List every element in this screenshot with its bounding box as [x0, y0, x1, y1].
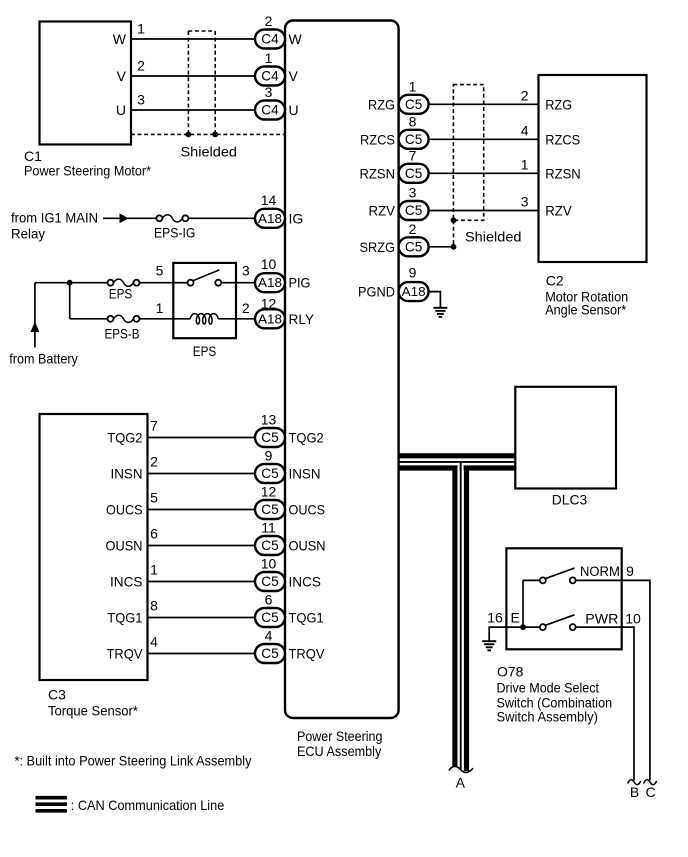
connector C5 pin 3 (RZV) [399, 201, 429, 220]
arrow from Battery [31, 322, 40, 333]
svg-text:3: 3 [409, 185, 417, 201]
svg-text:A18: A18 [258, 211, 282, 226]
svg-text:12: 12 [261, 295, 277, 311]
wire RZV to C2 [429, 210, 539, 212]
connector A18 pin 14 (IG) [255, 209, 285, 228]
svg-text:: CAN Communication Line: : CAN Communication Line [71, 797, 225, 813]
svg-text:W: W [289, 31, 303, 47]
shield dashed box right line [214, 31, 216, 134]
CAN legend bars [36, 796, 67, 800]
CAN bus horizontal line (thin middle) [399, 461, 516, 463]
svg-text:C1: C1 [24, 148, 42, 164]
wire C1 U to connector C4 [131, 109, 255, 111]
svg-text:RZCS: RZCS [545, 131, 580, 147]
connector A18 pin 12 (RLY) [255, 309, 285, 328]
wire NORM to pin 9 [576, 579, 622, 581]
wire PGND to ground [429, 292, 441, 308]
fuse EPS [108, 280, 114, 286]
svg-text:5: 5 [150, 490, 158, 506]
connector C5 pin 10 (INCS) [255, 572, 285, 591]
svg-text:8: 8 [409, 113, 417, 129]
component box C1 Power Steering Motor [40, 22, 132, 145]
wire C3 TRQV to ECU [148, 653, 256, 655]
svg-text:11: 11 [261, 520, 276, 536]
svg-text:8: 8 [150, 598, 158, 614]
shield dashed box (C2) outline [453, 85, 483, 221]
svg-text:TQG1: TQG1 [107, 610, 142, 626]
wire RZCS to C2 [429, 138, 539, 140]
connector C5 pin 8 (RZCS) [399, 130, 429, 149]
svg-text:C4: C4 [261, 32, 279, 47]
ECU box outline (Power Steering ECU Assembly) [285, 21, 399, 719]
junction dot shield right [212, 132, 218, 138]
NORM switch contact right [570, 577, 576, 583]
svg-text:IG: IG [289, 210, 304, 226]
wire PWR to pin 10 [576, 626, 622, 628]
wire to NORM contact [523, 579, 540, 581]
connector C5 pin 2 (SRZG) [399, 237, 429, 256]
svg-text:C5: C5 [261, 466, 278, 481]
svg-text:ECU Assembly: ECU Assembly [297, 743, 381, 759]
svg-text:1: 1 [521, 156, 529, 172]
wire C3 INSN to ECU [148, 473, 256, 475]
NORM switch contact left [540, 577, 546, 583]
connector C4 pin 2 (W) [255, 30, 285, 49]
ground symbol O78 [482, 640, 496, 642]
svg-text:V: V [117, 68, 127, 84]
svg-text:16: 16 [487, 610, 503, 626]
svg-text:1: 1 [150, 562, 158, 578]
svg-text:10: 10 [261, 256, 277, 272]
svg-text:C3: C3 [48, 686, 66, 702]
svg-text:A18: A18 [258, 311, 282, 326]
svg-text:W: W [113, 31, 127, 47]
wire C3 INCS to ECU [148, 581, 256, 583]
svg-text:TQG2: TQG2 [289, 430, 324, 446]
junction dot shield box corner [451, 217, 457, 223]
wire branch down to EPS-B [69, 283, 71, 319]
svg-text:3: 3 [521, 194, 529, 210]
connector A18 pin 10 (PIG) [255, 273, 285, 292]
svg-text:Angle Sensor*: Angle Sensor* [545, 302, 626, 318]
connector C5 pin 6 (TQG1) [255, 608, 285, 627]
svg-text:U: U [116, 102, 126, 118]
wire C3 TQG1 to ECU [148, 617, 256, 619]
connector C5 pin 7 (RZSN) [399, 164, 429, 183]
svg-text:1: 1 [409, 78, 417, 94]
svg-text:7: 7 [409, 147, 417, 163]
svg-text:6: 6 [265, 592, 273, 608]
wire RZSN to C2 [429, 172, 539, 174]
svg-text:EPS: EPS [109, 286, 133, 302]
svg-text:10: 10 [625, 610, 641, 626]
connector C5 pin 4 (TRQV) [255, 644, 285, 663]
wire C1 V to connector C4 [131, 75, 255, 77]
wire branch to EPS-B fuse [70, 318, 108, 320]
PWR switch contact right [570, 624, 576, 630]
CAN bus vertical line (thick right) [464, 466, 469, 772]
svg-text:PIG: PIG [289, 275, 311, 291]
svg-text:INSN: INSN [111, 466, 143, 482]
svg-text:OUSN: OUSN [106, 538, 143, 554]
wire pin 9 to C [622, 580, 650, 780]
svg-text:EPS-B: EPS-B [105, 326, 140, 342]
svg-text:Shielded: Shielded [181, 144, 238, 160]
junction dot battery branch [67, 280, 73, 286]
wire EPS fuse to relay pin 5 [139, 282, 173, 284]
svg-text:TRQV: TRQV [107, 646, 144, 662]
relay switch contact left [188, 280, 194, 286]
CAN junction white gaps [457, 465, 459, 470]
svg-text:3: 3 [242, 262, 250, 278]
wire O78 E to ground [489, 627, 506, 641]
svg-text:*: Built into Power Steering L: *: Built into Power Steering Link Assemb… [15, 752, 252, 768]
svg-text:RZG: RZG [545, 96, 572, 112]
relay coil L [190, 314, 218, 324]
junction dot shield left [186, 132, 192, 138]
junction dot shield drain [451, 244, 457, 250]
svg-text:A18: A18 [402, 284, 426, 299]
svg-text:C4: C4 [261, 69, 279, 84]
svg-text:RZSN: RZSN [545, 165, 581, 181]
connector C4 pin 1 (V) [255, 67, 285, 86]
wire RZG to C2 [429, 103, 539, 105]
svg-text:A18: A18 [258, 275, 282, 290]
svg-text:INCS: INCS [289, 574, 322, 590]
svg-text:RZG: RZG [368, 96, 395, 112]
svg-text:1: 1 [265, 50, 273, 66]
svg-text:4: 4 [521, 122, 529, 138]
svg-text:2: 2 [265, 13, 273, 29]
svg-text:Switch Assembly): Switch Assembly) [497, 709, 598, 725]
svg-text:O78: O78 [497, 664, 524, 680]
svg-text:C5: C5 [405, 132, 422, 147]
svg-text:OUCS: OUCS [289, 502, 326, 518]
svg-text:from IG1 MAIN: from IG1 MAIN [11, 210, 98, 226]
connector C5 pin 12 (OUCS) [255, 500, 285, 519]
wire SRZG to shield drain [429, 246, 454, 248]
svg-text:B: B [630, 784, 639, 800]
svg-text:RLY: RLY [289, 311, 315, 327]
svg-text:3: 3 [137, 92, 145, 108]
svg-text:C5: C5 [261, 502, 278, 517]
svg-text:EPS: EPS [193, 343, 217, 359]
svg-text:NORM: NORM [580, 563, 620, 579]
svg-text:C5: C5 [261, 646, 278, 661]
relay coil wire left segment [173, 318, 190, 320]
CAN line break wave at A [449, 766, 473, 779]
svg-text:C5: C5 [261, 538, 278, 553]
svg-text:U: U [289, 102, 299, 118]
svg-text:2: 2 [150, 454, 158, 470]
svg-text:SRZG: SRZG [360, 239, 396, 255]
svg-text:TRQV: TRQV [289, 646, 326, 662]
svg-text:INSN: INSN [289, 466, 321, 482]
svg-text:Torque Sensor*: Torque Sensor* [48, 703, 139, 719]
svg-text:RZSN: RZSN [360, 165, 396, 181]
connector C5 pin 13 (TQG2) [255, 428, 285, 447]
wire relay pin 2 to RLY [236, 318, 255, 320]
svg-text:14: 14 [261, 192, 277, 208]
svg-text:12: 12 [261, 484, 277, 500]
wire from IG1 MAIN Relay to fuse EPS-IG [103, 217, 156, 219]
wire E to switches [506, 626, 539, 628]
component box O78 Drive Mode Select Switch [506, 548, 621, 649]
fuse EPS-IG [156, 215, 162, 221]
svg-text:C4: C4 [261, 103, 279, 118]
wire fuse EPS-IG to IG [188, 217, 255, 219]
svg-text:INCS: INCS [110, 574, 143, 590]
svg-text:C5: C5 [261, 610, 278, 625]
shield dashed box top line [188, 30, 215, 32]
svg-text:1: 1 [137, 21, 145, 37]
svg-text:C5: C5 [405, 203, 422, 218]
svg-text:C2: C2 [546, 273, 564, 289]
CAN bus horizontal line to DLC3 (thick top) [399, 453, 516, 458]
wire C3 OUCS to ECU [148, 509, 256, 511]
svg-text:2: 2 [521, 87, 529, 103]
svg-text:E: E [511, 610, 520, 626]
svg-text:4: 4 [150, 634, 158, 650]
CAN bus vertical line (thin middle) [460, 463, 462, 772]
svg-text:7: 7 [150, 418, 158, 434]
svg-text:PGND: PGND [358, 284, 395, 300]
svg-text:TQG1: TQG1 [289, 610, 324, 626]
svg-text:4: 4 [265, 628, 273, 644]
svg-text:C5: C5 [405, 166, 422, 181]
svg-text:Drive Mode Select: Drive Mode Select [497, 680, 600, 696]
ground symbol PGND [433, 307, 447, 309]
wire C3 TQG2 to ECU [148, 437, 256, 439]
svg-text:Shielded: Shielded [465, 229, 522, 245]
svg-text:5: 5 [156, 262, 164, 278]
wire C3 OUSN to ECU [148, 545, 256, 547]
svg-text:C5: C5 [261, 574, 278, 589]
svg-text:2: 2 [409, 221, 417, 237]
connector C5 pin 11 (OUSN) [255, 536, 285, 555]
svg-text:V: V [289, 68, 299, 84]
svg-text:13: 13 [261, 412, 277, 428]
junction dot O78 [520, 624, 526, 630]
NORM switch blade [546, 568, 575, 578]
svg-text:DLC3: DLC3 [552, 492, 588, 508]
relay coil wire right segment [218, 318, 236, 320]
svg-text:C5: C5 [261, 430, 278, 445]
component box DLC3 [515, 387, 616, 489]
svg-text:9: 9 [265, 448, 273, 464]
PWR switch contact left [540, 624, 546, 630]
component box C2 Motor Rotation Angle Sensor [539, 75, 647, 262]
svg-text:OUSN: OUSN [289, 538, 326, 554]
fuse EPS-B [108, 316, 114, 322]
svg-text:2: 2 [242, 300, 250, 316]
wire C1 W to connector C4 [131, 38, 255, 40]
wire break squiggle C [644, 780, 657, 785]
relay switch wire left segment [173, 282, 187, 284]
relay switch wire right segment [221, 282, 236, 284]
relay EPS box [173, 263, 236, 338]
svg-text:C: C [645, 784, 655, 800]
svg-text:10: 10 [261, 556, 277, 572]
svg-text:9: 9 [626, 563, 634, 579]
CAN bus vertical line (thick left) [452, 466, 457, 772]
svg-text:9: 9 [409, 265, 417, 281]
connector C5 pin 9 (INSN) [255, 464, 285, 483]
connector A18 pin 9 (PGND) [399, 282, 429, 301]
connector C5 pin 1 (RZG) [399, 95, 429, 114]
shield drain dashed wire [453, 220, 455, 247]
svg-text:OUCS: OUCS [106, 502, 143, 518]
svg-text:3: 3 [265, 84, 273, 100]
svg-text:A: A [456, 774, 466, 790]
arrow from IG1 MAIN relay [120, 213, 129, 223]
svg-text:Relay: Relay [11, 226, 45, 242]
svg-text:from Battery: from Battery [9, 350, 78, 366]
connector C4 pin 3 (U) [255, 101, 285, 120]
svg-text:C5: C5 [405, 239, 422, 254]
svg-text:6: 6 [150, 526, 158, 542]
svg-text:EPS-IG: EPS-IG [154, 225, 195, 241]
wire pin 10 to B [622, 627, 634, 780]
svg-text:TQG2: TQG2 [107, 430, 142, 446]
svg-text:C5: C5 [405, 97, 422, 112]
relay switch contact right [215, 280, 221, 286]
svg-text:Power Steering Motor*: Power Steering Motor* [24, 163, 151, 179]
svg-text:2: 2 [137, 58, 145, 74]
svg-text:1: 1 [156, 300, 164, 316]
wire battery top run to EPS fuse [35, 282, 108, 284]
shield dashed box left line [187, 31, 189, 134]
svg-text:Power Steering: Power Steering [297, 728, 382, 744]
PWR switch blade [546, 615, 575, 625]
wire up to NORM switch [522, 580, 524, 627]
wire EPS-B fuse to relay pin 1 [139, 318, 173, 320]
svg-text:RZV: RZV [545, 203, 572, 219]
component box C3 Torque Sensor [40, 414, 148, 680]
relay switch blade [193, 270, 219, 281]
wire relay pin 3 to PIG [236, 282, 255, 284]
shield dashed wire from C1 to ECU [131, 133, 285, 135]
svg-text:RZCS: RZCS [360, 131, 395, 147]
svg-text:RZV: RZV [369, 203, 396, 219]
svg-text:PWR: PWR [585, 610, 618, 626]
battery feed vertical wire [34, 283, 36, 348]
wire break squiggle B [628, 780, 641, 785]
CAN bus horizontal line (thick bottom) [399, 465, 516, 470]
